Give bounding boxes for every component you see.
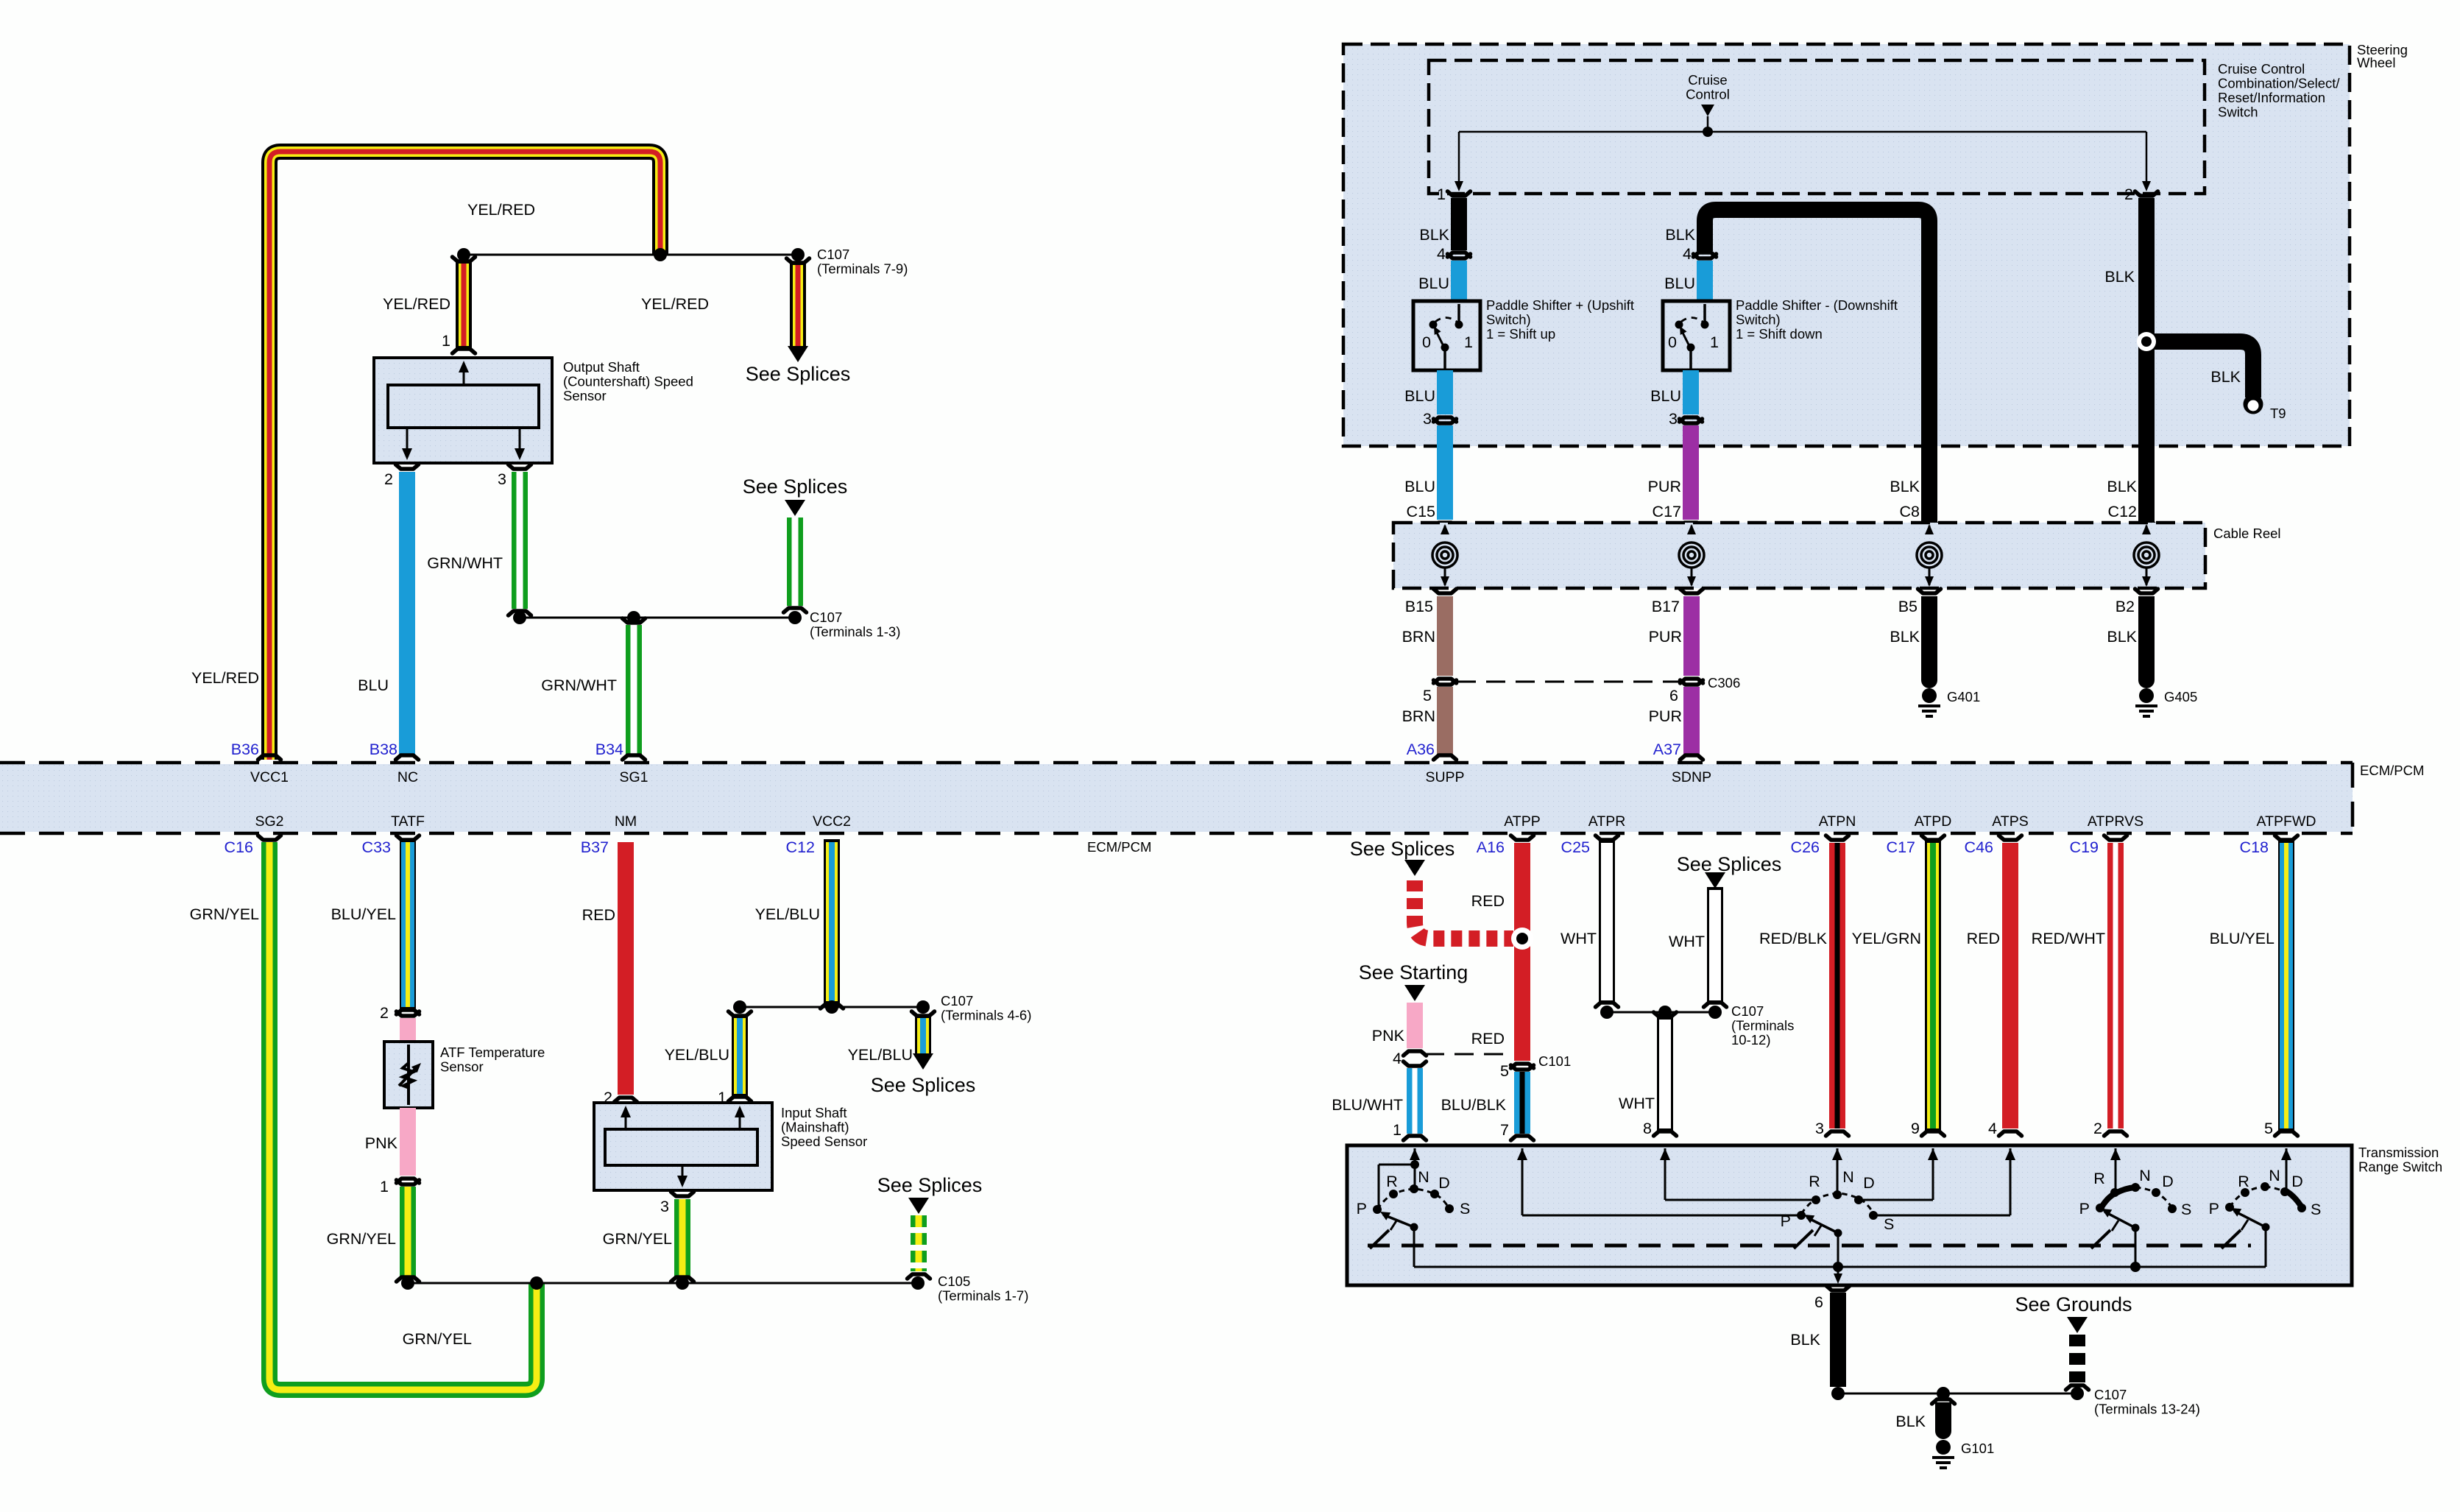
svg-text:3: 3 [1815, 1120, 1824, 1137]
svg-text:B5: B5 [1898, 598, 1918, 615]
svg-text:(Terminals 7-9): (Terminals 7-9) [817, 261, 908, 277]
svg-text:N: N [1418, 1168, 1429, 1186]
svg-text:PUR: PUR [1648, 478, 1681, 495]
svg-text:R: R [1386, 1173, 1398, 1190]
svg-text:RED: RED [1471, 1030, 1505, 1048]
svg-text:B38: B38 [370, 741, 397, 758]
svg-text:GRN/YEL: GRN/YEL [190, 905, 259, 923]
svg-text:WHT: WHT [1619, 1095, 1655, 1112]
svg-text:A16: A16 [1477, 838, 1505, 856]
svg-text:YEL/BLU: YEL/BLU [755, 905, 820, 923]
svg-text:RED/BLK: RED/BLK [1759, 930, 1828, 947]
svg-text:ECM/PCM: ECM/PCM [2360, 763, 2424, 778]
svg-text:N: N [2139, 1167, 2151, 1184]
svg-text:(Terminals 1-3): (Terminals 1-3) [810, 624, 900, 640]
svg-text:See Starting: See Starting [1359, 961, 1468, 983]
svg-text:D: D [2162, 1173, 2174, 1190]
svg-text:C33: C33 [362, 838, 391, 856]
svg-text:ATPD: ATPD [1915, 813, 1952, 830]
svg-text:C107: C107 [2094, 1387, 2127, 1402]
svg-text:4: 4 [1437, 245, 1446, 263]
svg-text:NC: NC [397, 769, 418, 785]
svg-text:C8: C8 [1900, 503, 1920, 520]
svg-text:7: 7 [1500, 1121, 1509, 1139]
svg-text:Switch): Switch) [1486, 312, 1531, 328]
svg-text:Combination/Select/: Combination/Select/ [2218, 76, 2340, 91]
svg-text:ATPRVS: ATPRVS [2088, 813, 2143, 830]
svg-text:R: R [2093, 1170, 2105, 1187]
svg-text:2: 2 [384, 470, 393, 488]
svg-text:BLU: BLU [1404, 387, 1435, 405]
svg-text:3: 3 [1669, 410, 1678, 428]
svg-text:B34: B34 [595, 741, 623, 758]
svg-text:5: 5 [1500, 1062, 1509, 1080]
svg-text:D: D [1438, 1174, 1450, 1192]
svg-text:P: P [1781, 1212, 1791, 1230]
svg-text:ATPN: ATPN [1819, 813, 1856, 830]
svg-text:C306: C306 [1708, 675, 1740, 690]
svg-text:BLU/WHT: BLU/WHT [1332, 1096, 1403, 1114]
svg-text:BLK: BLK [1790, 1331, 1820, 1349]
svg-text:1: 1 [442, 332, 450, 350]
svg-text:SG2: SG2 [255, 813, 283, 830]
svg-text:P: P [2209, 1200, 2219, 1218]
svg-text:1: 1 [1437, 186, 1446, 203]
svg-text:See Grounds: See Grounds [2015, 1293, 2132, 1315]
svg-text:(Terminals: (Terminals [1731, 1018, 1794, 1034]
svg-text:Output Shaft: Output Shaft [563, 359, 640, 375]
svg-text:8: 8 [1643, 1120, 1652, 1137]
svg-text:SUPP: SUPP [1425, 769, 1464, 785]
svg-text:YEL/RED: YEL/RED [467, 201, 535, 219]
svg-text:YEL/RED: YEL/RED [641, 295, 709, 313]
svg-text:10-12): 10-12) [1731, 1032, 1770, 1048]
svg-text:C17: C17 [1653, 503, 1681, 520]
svg-text:C12: C12 [2108, 503, 2137, 520]
svg-text:RED/WHT: RED/WHT [2032, 930, 2105, 947]
svg-text:S: S [1884, 1215, 1894, 1233]
svg-text:G101: G101 [1961, 1441, 1994, 1456]
svg-text:Sensor: Sensor [440, 1059, 484, 1075]
svg-text:RED: RED [1471, 892, 1505, 910]
svg-text:3: 3 [498, 470, 506, 488]
svg-text:ATPR: ATPR [1588, 813, 1626, 830]
svg-text:N: N [1842, 1168, 1854, 1186]
svg-text:Cruise: Cruise [1688, 72, 1727, 88]
svg-text:ATPS: ATPS [1992, 813, 2028, 830]
svg-text:WHT: WHT [1561, 930, 1597, 947]
svg-text:PUR: PUR [1649, 707, 1682, 725]
svg-text:4: 4 [1393, 1050, 1402, 1067]
svg-text:GRN/YEL: GRN/YEL [327, 1230, 396, 1248]
svg-text:PNK: PNK [365, 1134, 398, 1152]
svg-text:GRN/WHT: GRN/WHT [427, 554, 503, 572]
svg-text:YEL/GRN: YEL/GRN [1852, 930, 1921, 947]
svg-text:1: 1 [1393, 1121, 1402, 1139]
svg-text:C16: C16 [225, 838, 253, 856]
svg-text:ATPFWD: ATPFWD [2257, 813, 2316, 830]
svg-text:Paddle Shifter + (Upshift: Paddle Shifter + (Upshift [1486, 297, 1634, 313]
svg-text:BLK: BLK [1890, 628, 1920, 646]
svg-text:(Terminals 4-6): (Terminals 4-6) [941, 1008, 1031, 1023]
svg-text:BLU/YEL: BLU/YEL [2210, 930, 2275, 947]
svg-text:Transmission: Transmission [2358, 1145, 2439, 1160]
svg-text:6: 6 [1814, 1293, 1823, 1311]
svg-text:1 = Shift down: 1 = Shift down [1736, 326, 1823, 342]
svg-text:C107: C107 [1731, 1003, 1764, 1019]
svg-text:NM: NM [615, 813, 637, 830]
svg-text:Control: Control [1686, 87, 1730, 102]
svg-text:PUR: PUR [1649, 628, 1682, 646]
svg-text:SDNP: SDNP [1672, 769, 1711, 785]
svg-text:(Mainshaft): (Mainshaft) [781, 1120, 849, 1135]
svg-text:Cable Reel: Cable Reel [2213, 526, 2281, 541]
svg-text:WHT: WHT [1669, 933, 1705, 950]
svg-text:2: 2 [2093, 1120, 2102, 1137]
svg-text:BLK: BLK [2107, 628, 2137, 646]
svg-text:YEL/RED: YEL/RED [191, 669, 259, 687]
svg-text:N: N [2269, 1167, 2280, 1184]
svg-text:0: 0 [1668, 333, 1677, 351]
svg-text:Switch: Switch [2218, 105, 2258, 120]
svg-text:See Splices: See Splices [743, 476, 848, 498]
svg-text:5: 5 [1423, 687, 1432, 704]
svg-text:1 = Shift up: 1 = Shift up [1486, 326, 1555, 342]
svg-text:(Terminals 1-7): (Terminals 1-7) [938, 1288, 1028, 1304]
svg-text:RED: RED [582, 906, 615, 924]
svg-text:B37: B37 [581, 838, 609, 856]
svg-text:P: P [2079, 1200, 2090, 1218]
svg-text:2: 2 [380, 1004, 389, 1022]
svg-text:BLK: BLK [1419, 226, 1449, 244]
svg-text:YEL/RED: YEL/RED [383, 295, 450, 313]
svg-text:T9: T9 [2270, 406, 2286, 421]
svg-text:BLU: BLU [1664, 275, 1695, 292]
svg-text:B17: B17 [1652, 598, 1680, 615]
svg-text:P: P [1357, 1200, 1367, 1218]
svg-text:BLK: BLK [2104, 268, 2135, 286]
svg-text:YEL/BLU: YEL/BLU [848, 1046, 913, 1064]
svg-text:BLK: BLK [2210, 368, 2241, 386]
svg-text:Range Switch: Range Switch [2358, 1159, 2442, 1175]
svg-text:ATF Temperature: ATF Temperature [440, 1045, 545, 1060]
svg-text:ECM/PCM: ECM/PCM [1087, 839, 1151, 855]
svg-text:VCC1: VCC1 [250, 769, 289, 785]
svg-text:2: 2 [2124, 186, 2133, 203]
svg-text:5: 5 [2264, 1120, 2273, 1137]
svg-text:C107: C107 [817, 247, 849, 262]
svg-text:BRN: BRN [1402, 707, 1435, 725]
svg-text:3: 3 [1423, 410, 1432, 428]
svg-text:C26: C26 [1791, 838, 1820, 856]
svg-text:1: 1 [1464, 333, 1473, 351]
svg-text:RED: RED [1967, 930, 2000, 947]
svg-text:C105: C105 [938, 1273, 970, 1289]
svg-text:Cruise Control: Cruise Control [2218, 61, 2305, 77]
svg-text:Input Shaft: Input Shaft [781, 1105, 846, 1120]
svg-text:VCC2: VCC2 [813, 813, 851, 830]
svg-text:1: 1 [380, 1178, 389, 1195]
svg-text:D: D [1863, 1174, 1875, 1192]
svg-text:C46: C46 [1965, 838, 1993, 856]
svg-text:D: D [2291, 1173, 2303, 1190]
svg-text:Paddle Shifter - (Downshift: Paddle Shifter - (Downshift [1736, 297, 1898, 313]
svg-text:C101: C101 [1538, 1053, 1571, 1069]
svg-text:C19: C19 [2070, 838, 2099, 856]
svg-text:S: S [1460, 1200, 1470, 1218]
svg-text:See Splices: See Splices [1350, 838, 1455, 860]
svg-text:(Countershaft) Speed: (Countershaft) Speed [563, 374, 693, 389]
svg-text:Wheel: Wheel [2357, 55, 2395, 71]
svg-text:1: 1 [1710, 333, 1719, 351]
svg-text:B15: B15 [1405, 598, 1433, 615]
svg-text:G405: G405 [2164, 689, 2197, 704]
svg-text:GRN/WHT: GRN/WHT [541, 676, 617, 694]
svg-text:G401: G401 [1947, 689, 1980, 704]
svg-text:GRN/YEL: GRN/YEL [403, 1330, 472, 1348]
svg-text:BLK: BLK [1890, 478, 1920, 495]
svg-text:S: S [2311, 1201, 2321, 1218]
svg-text:BLU: BLU [1650, 387, 1681, 405]
svg-text:BLU: BLU [1404, 478, 1435, 495]
svg-text:GRN/YEL: GRN/YEL [603, 1230, 672, 1248]
svg-text:4: 4 [1988, 1120, 1997, 1137]
svg-text:A37: A37 [1653, 741, 1681, 758]
svg-text:See Splices: See Splices [746, 363, 851, 385]
svg-text:Sensor: Sensor [563, 388, 607, 403]
svg-text:C15: C15 [1407, 503, 1435, 520]
svg-text:(Terminals 13-24): (Terminals 13-24) [2094, 1402, 2200, 1417]
svg-text:BLK: BLK [2107, 478, 2137, 495]
svg-text:See Splices: See Splices [871, 1074, 976, 1096]
svg-text:YEL/BLU: YEL/BLU [665, 1046, 729, 1064]
svg-text:C17: C17 [1887, 838, 1915, 856]
svg-text:BLU: BLU [1418, 275, 1449, 292]
svg-text:S: S [2181, 1201, 2191, 1218]
svg-text:C18: C18 [2240, 838, 2269, 856]
svg-text:Switch): Switch) [1736, 312, 1781, 328]
svg-text:SG1: SG1 [619, 769, 648, 785]
svg-text:6: 6 [1669, 687, 1678, 704]
svg-text:ATPP: ATPP [1504, 813, 1540, 830]
svg-text:A36: A36 [1407, 741, 1435, 758]
svg-text:C107: C107 [941, 993, 973, 1008]
svg-text:R: R [2238, 1173, 2249, 1190]
svg-text:PNK: PNK [1372, 1027, 1405, 1045]
svg-text:BRN: BRN [1402, 628, 1435, 646]
svg-text:BLU/BLK: BLU/BLK [1441, 1096, 1507, 1114]
svg-text:Reset/Information: Reset/Information [2218, 90, 2325, 105]
svg-text:C12: C12 [786, 838, 815, 856]
svg-text:Speed Sensor: Speed Sensor [781, 1134, 867, 1149]
svg-text:C25: C25 [1561, 838, 1590, 856]
svg-text:See Splices: See Splices [1677, 853, 1782, 875]
svg-text:See Splices: See Splices [877, 1174, 983, 1196]
svg-text:BLU: BLU [358, 676, 389, 694]
svg-text:R: R [1809, 1173, 1820, 1190]
svg-text:BLK: BLK [1665, 226, 1695, 244]
svg-text:0: 0 [1422, 333, 1431, 351]
svg-text:B36: B36 [231, 741, 259, 758]
svg-text:TATF: TATF [391, 813, 425, 830]
svg-text:BLU/YEL: BLU/YEL [331, 905, 396, 923]
svg-text:3: 3 [660, 1198, 669, 1215]
svg-text:B2: B2 [2116, 598, 2135, 615]
svg-text:9: 9 [1911, 1120, 1920, 1137]
svg-text:4: 4 [1683, 245, 1692, 263]
svg-text:C107: C107 [810, 610, 842, 625]
svg-text:BLK: BLK [1895, 1413, 1926, 1430]
